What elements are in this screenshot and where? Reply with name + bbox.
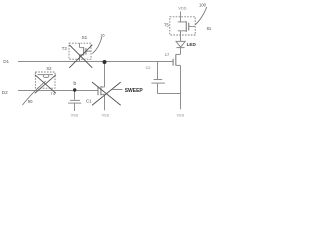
svg-text:D1: D1 [3,59,9,64]
svg-text:16: 16 [100,33,105,38]
svg-text:VSS: VSS [71,114,79,118]
svg-text:C1: C1 [86,99,92,104]
svg-text:b: b [73,81,76,87]
svg-text:C2: C2 [146,66,151,70]
svg-text:SWEEP: SWEEP [125,88,144,94]
svg-text:90: 90 [28,99,33,104]
svg-text:81: 81 [207,26,212,31]
svg-text:VSS: VSS [177,114,185,118]
svg-text:S2: S2 [46,66,52,71]
svg-text:S1: S1 [82,35,88,40]
svg-text:D2: D2 [2,90,8,95]
svg-text:VSS: VSS [102,113,110,117]
svg-text:100: 100 [199,2,207,7]
svg-text:VDD: VDD [178,5,186,10]
svg-text:T3: T3 [62,46,68,51]
svg-text:T5: T5 [164,22,170,27]
svg-text:T4: T4 [50,91,55,96]
svg-text:17: 17 [165,52,170,57]
svg-text:LED: LED [187,42,197,47]
